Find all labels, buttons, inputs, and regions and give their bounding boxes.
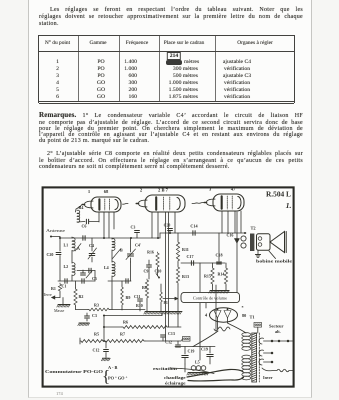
wire to choke bar	[184, 364, 186, 372]
wire node y281	[58, 280, 95, 282]
svg-text:Commutateur PO-GO: Commutateur PO-GO	[45, 369, 104, 374]
svg-text:C6: C6	[82, 224, 87, 229]
wire tube2 pin b	[157, 212, 159, 238]
resistor R9	[121, 286, 124, 306]
wire y315 stub	[161, 313, 163, 316]
wire to lamps	[181, 339, 183, 341]
svg-text:C19: C19	[188, 349, 195, 354]
svg-text:1: 1	[88, 189, 91, 194]
capacitor C20 antenna	[56, 252, 61, 254]
resistor R3	[88, 308, 110, 311]
svg-text:Contrôle de volume: Contrôle de volume	[193, 296, 227, 301]
svg-text:R15: R15	[204, 274, 211, 279]
wire volume box to tube4	[205, 303, 207, 308]
svg-text:C14: C14	[190, 224, 198, 229]
page number	[56, 391, 63, 396]
wire R3 left	[76, 309, 89, 311]
svg-text:Terre: Terre	[43, 292, 52, 297]
wire bus to R11	[177, 233, 179, 241]
svg-text:R5: R5	[94, 332, 99, 337]
svg-text:Masse: Masse	[54, 308, 64, 313]
wire tube1 pin b	[103, 212, 105, 238]
wire tube3 pin b	[227, 211, 229, 233]
wire P1 down	[160, 303, 162, 311]
wire to R9	[121, 281, 123, 286]
wire tube1 pin c	[108, 212, 110, 238]
wire antenna down 2	[59, 256, 61, 282]
wire C19 down	[184, 358, 186, 364]
variable capacitor C4prime	[130, 238, 132, 252]
diode plates	[214, 311, 221, 318]
svg-text:R10: R10	[136, 304, 143, 308]
heater coil under tube 4	[214, 327, 230, 331]
svg-text:C4: C4	[89, 243, 94, 248]
svg-text:A - B: A - B	[108, 365, 117, 370]
wire tube4 to T1	[228, 323, 247, 333]
wire C6 to pin	[89, 221, 99, 223]
resistor R13	[176, 266, 179, 284]
svg-text:1.: 1.	[286, 201, 292, 210]
wire volume box down	[199, 303, 201, 347]
wire rail tube2 pin c	[165, 212, 167, 341]
wire tube2 pin e	[174, 212, 176, 233]
capacitor C9	[147, 264, 152, 266]
heater bundle wire 3	[181, 369, 214, 374]
transformer T2 primary coil	[241, 236, 246, 241]
svg-text:alt.: alt.	[275, 329, 281, 334]
coil L3	[112, 239, 115, 251]
svg-text:Inver: Inver	[263, 375, 273, 380]
wire R11-R13	[177, 262, 179, 266]
wire C18 drop	[218, 233, 220, 261]
svg-text:R11: R11	[182, 247, 189, 252]
svg-text:L1: L1	[64, 243, 69, 248]
wire y281 mid	[108, 280, 131, 282]
chassis bar under L5	[188, 372, 208, 374]
svg-text:68: 68	[104, 189, 109, 194]
wire tube3 grid-cap lead	[192, 202, 205, 203]
resistor R1	[58, 283, 61, 292]
wire bus jog	[159, 233, 161, 238]
svg-text:C3: C3	[131, 225, 136, 230]
mains tap 3	[259, 359, 263, 365]
wire L2 down	[71, 275, 73, 281]
wire L3-L4	[111, 250, 113, 262]
wire C9 top	[148, 260, 150, 265]
tube 1 (6B8)	[82, 197, 121, 212]
svg-text:C19: C19	[201, 347, 208, 352]
transformer T1 core	[252, 333, 257, 382]
R5 left terminal	[79, 338, 81, 344]
svg-text:C13: C13	[168, 331, 175, 336]
wire main bus y238	[60, 237, 160, 239]
wire R2 to R3	[75, 306, 77, 310]
svg-text:R.504 L: R.504 L	[266, 190, 291, 199]
T1 secondary windings	[242, 355, 251, 359]
svg-text:R4: R4	[79, 205, 84, 210]
wire R6 right	[168, 326, 181, 328]
svg-text:C11: C11	[134, 295, 141, 299]
wire antenna lead	[51, 236, 60, 238]
heater bundle wire 2	[188, 378, 244, 381]
svg-text:4: 4	[205, 313, 208, 318]
schematic border frame	[43, 187, 294, 386]
svg-text:C5: C5	[92, 276, 97, 281]
svg-text:bobine mobile: bobine mobile	[256, 259, 292, 264]
arrow into volume box	[163, 298, 178, 300]
wire fuse to T1	[257, 327, 259, 333]
svg-text:C4': C4'	[135, 243, 141, 248]
capacitor C12	[105, 341, 107, 348]
wire rail tube2 pin d	[168, 212, 170, 327]
resistor R8	[145, 279, 148, 299]
wire C17 node to volume box	[199, 263, 201, 292]
capacitor C6	[85, 219, 87, 223]
svg-text:R13: R13	[182, 274, 189, 279]
svg-text:C20: C20	[47, 252, 54, 257]
svg-text:T2: T2	[250, 226, 255, 231]
wire y346	[175, 346, 215, 348]
capacitor C19	[184, 347, 186, 355]
mains tap 2	[259, 350, 263, 356]
capacitor C13	[162, 338, 164, 341]
wire y341 right	[145, 340, 181, 342]
resistor R5	[80, 340, 104, 343]
svg-text:C1: C1	[62, 284, 67, 289]
capacitor C14	[192, 231, 194, 235]
capacitor C18	[217, 261, 222, 263]
wire tube1 pin d	[113, 212, 115, 229]
svg-text:R16: R16	[147, 251, 154, 255]
choke R4	[77, 210, 80, 222]
wire y315 link	[104, 315, 162, 317]
svg-text:Secteur: Secteur	[269, 324, 284, 329]
resistor R7	[104, 340, 145, 343]
potentiometer P1	[160, 291, 163, 303]
wire tube3 pin c	[234, 211, 236, 233]
mains bottom squiggle	[262, 368, 293, 372]
svg-text:C9: C9	[144, 269, 149, 274]
wire C19b down	[209, 357, 211, 364]
wire to C6	[77, 221, 85, 224]
wire riser x104	[103, 316, 105, 342]
top paragraph	[39, 7, 303, 28]
wire R16 down	[157, 268, 159, 276]
wire R15 down	[212, 285, 214, 291]
chassis bar AF	[210, 290, 229, 292]
fuse block above T1	[254, 323, 262, 328]
trimmer B arrow	[113, 249, 121, 259]
wire tube2 pin a	[151, 212, 153, 238]
capacitor C17	[190, 261, 192, 265]
wire R13 down	[177, 284, 179, 327]
wire to R15	[212, 263, 214, 267]
chassis bar detector	[145, 311, 182, 313]
volume control box	[181, 292, 240, 302]
wire R14 down	[225, 285, 227, 291]
capacitor C3 stub	[136, 234, 138, 239]
capacitor C20 on bus	[169, 231, 171, 233]
wire tube2 grid-cap lead	[123, 202, 129, 205]
wire L1 top	[71, 237, 73, 238]
wire C11 down	[139, 302, 141, 311]
capacitor C2	[81, 279, 83, 283]
transformer T2 core	[250, 234, 254, 252]
capacitor C11	[138, 298, 143, 300]
lamp block left	[183, 337, 191, 342]
tube 2 (2B7)	[136, 195, 185, 212]
capacitor C1	[64, 279, 66, 283]
svg-text:R1: R1	[51, 286, 56, 291]
speaker rim	[285, 232, 287, 253]
resistor R16	[156, 252, 159, 268]
svg-text:T1: T1	[249, 315, 254, 320]
svg-text:C20: C20	[164, 224, 171, 228]
wire tube1 pin a	[98, 212, 100, 222]
wire tube3 pin to T2	[240, 211, 242, 233]
wire x216 down	[215, 285, 217, 330]
wire diode to heater	[217, 318, 219, 329]
svg-text:C16: C16	[227, 233, 234, 238]
wire L3 top	[111, 238, 113, 239]
wire x200 down2	[199, 347, 201, 361]
svg-text:L5: L5	[195, 360, 200, 365]
resistor R2	[74, 288, 77, 306]
svg-text:éclairage: éclairage	[165, 381, 186, 386]
variable capacitor C4	[91, 238, 93, 251]
svg-text:C3: C3	[92, 313, 97, 318]
resistor R14	[224, 267, 227, 285]
svg-text:80: 80	[242, 313, 246, 318]
svg-text:C18: C18	[215, 253, 222, 258]
svg-text:R6: R6	[123, 320, 128, 325]
coil L4	[112, 262, 115, 277]
Remarques heading + paragraph 1	[39, 112, 303, 144]
svg-text:PO ° GO °: PO ° GO °	[108, 376, 128, 381]
svg-text:A: A	[77, 246, 80, 251]
wire tube3 pin a	[221, 211, 223, 233]
svg-text:*: *	[242, 305, 244, 310]
wire link down	[94, 271, 96, 282]
capacitor on bus	[82, 236, 84, 240]
capacitor C19b	[209, 347, 211, 354]
heater bundle wire 1	[187, 369, 243, 377]
svg-text:L4: L4	[104, 265, 109, 270]
capacitor C10 arrow	[156, 274, 159, 278]
capacitor C12b	[177, 341, 179, 344]
speaker cone	[270, 232, 285, 253]
svg-text:L2: L2	[64, 264, 69, 269]
svg-text:R7: R7	[120, 332, 125, 337]
svg-text:Antenne: Antenne	[46, 228, 65, 233]
T1 primary windings	[242, 333, 251, 337]
wire L1-L2	[71, 251, 73, 264]
capacitor C7	[125, 279, 127, 283]
svg-text:R14: R14	[218, 272, 225, 277]
wire tube1 grid-cap lead	[76, 205, 83, 213]
svg-text:B: B	[120, 248, 123, 253]
svg-text:2 B 7: 2 B 7	[158, 188, 169, 193]
Remarques paragraph 2	[39, 151, 303, 170]
wire screen rail	[236, 212, 238, 292]
coil L2	[72, 263, 75, 276]
capacitor C2b	[88, 268, 90, 272]
mains tap 1	[259, 338, 263, 344]
svg-text:C10: C10	[155, 269, 162, 274]
wire link y270	[77, 270, 95, 272]
svg-text:47: 47	[231, 187, 236, 192]
wire R3 to detector	[110, 309, 145, 311]
svg-text:R9: R9	[126, 295, 131, 300]
wire C4p down	[130, 262, 132, 281]
ground Masse	[58, 304, 70, 306]
wire heater to C19 bus	[193, 331, 218, 347]
svg-text:R2: R2	[79, 294, 84, 299]
trimmer A arrow	[75, 244, 81, 252]
coil L1	[72, 238, 75, 251]
wire R6 left	[104, 326, 122, 328]
wire C9 to R8	[148, 267, 150, 279]
capacitor C3 cathode + ground	[86, 313, 88, 316]
wire L4 down	[111, 276, 113, 310]
svg-text:C12: C12	[165, 341, 172, 345]
speaker voice-coil box	[257, 234, 271, 251]
wire P1 top	[160, 284, 162, 291]
capacitor C16 filled	[235, 239, 240, 244]
capacitor C2 trimmer	[81, 272, 86, 274]
svg-text:C12: C12	[93, 348, 100, 353]
tube 3 (47)	[204, 194, 244, 211]
resistor R15	[211, 267, 214, 285]
wire to R2	[75, 281, 77, 288]
wire to R14	[225, 263, 227, 267]
svg-text:R8: R8	[142, 285, 147, 290]
svg-text:P1: P1	[164, 301, 168, 305]
wire node y263	[181, 262, 225, 264]
svg-text:chauffage: chauffage	[164, 375, 186, 380]
wire R9 down	[121, 306, 123, 310]
resistor R11	[176, 241, 179, 262]
resistor R6	[122, 326, 168, 329]
svg-text:R3: R3	[94, 303, 99, 308]
wire R8 down	[146, 299, 148, 311]
wire antenna down	[59, 237, 61, 252]
svg-text:C17: C17	[186, 254, 193, 259]
rectifier tube 4 (80)	[210, 308, 238, 322]
speaker lead diagonal	[269, 251, 276, 259]
wire diode b	[227, 318, 229, 323]
ground under T2	[257, 251, 259, 255]
wire main bus y233	[160, 232, 246, 234]
